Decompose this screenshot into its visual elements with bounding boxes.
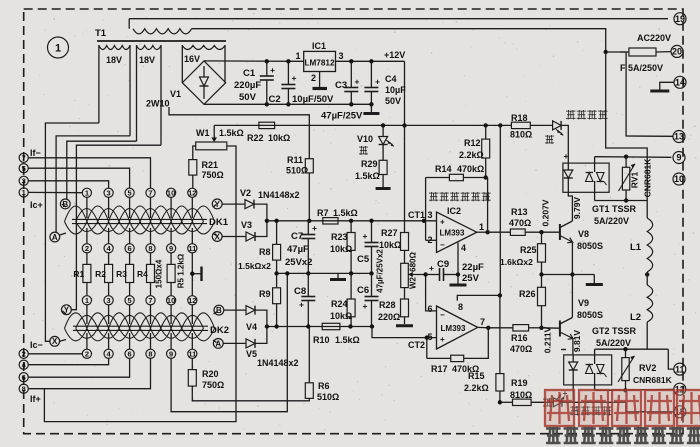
resistor R23 10k bbox=[350, 221, 352, 233]
pin1 output to R13 bbox=[477, 231, 488, 233]
svg-text:510Ω: 510Ω bbox=[286, 166, 308, 176]
svg-text:5: 5 bbox=[128, 296, 132, 305]
svg-text:LM393: LM393 bbox=[441, 324, 466, 333]
svg-text:1.5kΩ: 1.5kΩ bbox=[335, 335, 360, 345]
terminal 9 bbox=[673, 152, 685, 164]
wire triac bottom / RV1 bottom to L1 feed bbox=[594, 192, 596, 200]
svg-text:2.2kΩ: 2.2kΩ bbox=[464, 383, 489, 393]
svg-text:AC220V: AC220V bbox=[637, 33, 671, 43]
svg-text:750Ω: 750Ω bbox=[202, 380, 224, 390]
bridge rectifier V1 2W10 bbox=[182, 61, 225, 104]
svg-text:If−: If− bbox=[30, 148, 41, 158]
LED V10 red with R29 bbox=[381, 123, 385, 127]
svg-text:3: 3 bbox=[428, 210, 433, 220]
T1 secondary 16V winding bbox=[181, 45, 183, 83]
svg-text:Ic−: Ic− bbox=[30, 340, 43, 350]
wire terminal 8 to tap bbox=[28, 358, 150, 388]
svg-text:18V: 18V bbox=[139, 55, 155, 65]
svg-text:510Ω: 510Ω bbox=[317, 392, 339, 402]
svg-text:If+: If+ bbox=[30, 394, 41, 404]
svg-text:R25: R25 bbox=[520, 245, 537, 255]
label lv (green) bbox=[545, 135, 554, 144]
svg-text:7: 7 bbox=[480, 317, 485, 327]
resistor R20 750ohm bbox=[191, 358, 193, 369]
svg-text:470Ω: 470Ω bbox=[510, 344, 532, 354]
svg-text:IC1: IC1 bbox=[312, 41, 326, 51]
svg-text:R1: R1 bbox=[73, 269, 84, 279]
wire triac top to terminal 9 bbox=[594, 157, 596, 163]
label fancheng zhishi bbox=[566, 110, 576, 120]
svg-text:R29: R29 bbox=[361, 159, 378, 169]
feedback R17 470k bbox=[426, 338, 428, 359]
svg-text:10kΩ: 10kΩ bbox=[379, 240, 401, 250]
svg-text:A: A bbox=[215, 339, 221, 348]
resistor R18 810ohm bbox=[511, 122, 530, 128]
wire GT2 triac bottom to terminal 12 bbox=[594, 385, 596, 390]
svg-text:1: 1 bbox=[479, 222, 484, 232]
wire terminal 5 to tap bbox=[28, 168, 129, 188]
svg-text:1.5kΩ: 1.5kΩ bbox=[333, 208, 358, 218]
svg-text:+: + bbox=[440, 218, 445, 227]
svg-text:+: + bbox=[292, 73, 297, 83]
svg-text:C9: C9 bbox=[437, 259, 449, 270]
output row R10 bbox=[267, 326, 372, 328]
terminal 10 bbox=[673, 173, 685, 185]
svg-text:6: 6 bbox=[128, 350, 132, 359]
svg-text:47µF: 47µF bbox=[287, 244, 309, 255]
capacitor C7 47uF/25Vx2 bbox=[307, 221, 309, 234]
svg-text:1.5kΩ: 1.5kΩ bbox=[355, 171, 380, 181]
wire AC line top to terminal 19 bbox=[129, 18, 668, 20]
svg-text:9: 9 bbox=[169, 244, 173, 253]
svg-text:CT1: CT1 bbox=[408, 210, 425, 220]
svg-text:1N4148x2: 1N4148x2 bbox=[258, 190, 300, 200]
opto triac GT1 TSSR box bbox=[563, 163, 609, 192]
IC1 pin2 ground bar bbox=[319, 72, 321, 88]
terminal 20 bbox=[671, 45, 683, 57]
DK2 winding band bbox=[73, 325, 208, 327]
svg-text:1: 1 bbox=[296, 51, 301, 61]
tap 11-12 vertical with stub bbox=[191, 253, 193, 296]
wire AC line 2 to fuse bbox=[192, 29, 606, 52]
stair wire 18Vb left to B bbox=[67, 141, 137, 199]
svg-text:+: + bbox=[375, 77, 380, 87]
svg-text:8: 8 bbox=[22, 384, 26, 393]
svg-text:2: 2 bbox=[85, 350, 89, 359]
T1 secondary 18V winding a bbox=[98, 45, 100, 123]
svg-text:8: 8 bbox=[148, 244, 152, 253]
svg-text:6: 6 bbox=[428, 304, 433, 314]
svg-text:Ic+: Ic+ bbox=[30, 200, 43, 210]
svg-text:V9: V9 bbox=[578, 298, 589, 308]
wire tap9 down to comparator column bbox=[171, 273, 287, 411]
svg-text:8050S: 8050S bbox=[577, 310, 603, 320]
R26 bbox=[541, 275, 543, 288]
svg-text:R5 1.2kΩ: R5 1.2kΩ bbox=[177, 253, 186, 288]
svg-text:R19: R19 bbox=[511, 378, 528, 388]
svg-text:+12V: +12V bbox=[384, 50, 405, 60]
svg-text:+: + bbox=[363, 301, 368, 311]
svg-text:R15: R15 bbox=[468, 371, 485, 381]
svg-text:R10: R10 bbox=[313, 335, 330, 345]
svg-text:LM393: LM393 bbox=[440, 229, 465, 238]
svg-text:2: 2 bbox=[22, 350, 26, 359]
W2 wiper bbox=[408, 274, 425, 276]
svg-text:10µF: 10µF bbox=[385, 85, 406, 95]
svg-text:1N4148x2: 1N4148x2 bbox=[257, 358, 299, 368]
R15 2.2k bbox=[496, 374, 504, 391]
svg-text:11: 11 bbox=[188, 350, 196, 359]
R19 810ohm row bbox=[500, 401, 513, 403]
svg-text:9.81V: 9.81V bbox=[572, 330, 582, 353]
svg-text:+: + bbox=[355, 77, 360, 87]
CT1 signal row with R7 1.5k bbox=[267, 220, 437, 222]
svg-text:10kΩ: 10kΩ bbox=[330, 311, 352, 321]
transistor V9 8050S bbox=[559, 321, 561, 337]
DK1 node X right bbox=[212, 232, 222, 242]
svg-text:V3: V3 bbox=[241, 220, 252, 230]
pin6 wire from reference bbox=[426, 275, 437, 311]
LED green forward indicator bbox=[553, 398, 562, 407]
capacitor C3 47uF/25V bbox=[349, 59, 353, 63]
svg-text:9.79V: 9.79V bbox=[572, 197, 582, 220]
svg-text:1.5kΩx2: 1.5kΩx2 bbox=[238, 261, 271, 271]
svg-text:14: 14 bbox=[675, 78, 685, 88]
svg-text:R13: R13 bbox=[511, 207, 528, 217]
svg-text:C2: C2 bbox=[269, 94, 281, 105]
wire terminal 3 to tap bbox=[28, 181, 108, 189]
svg-text:1.5kΩ: 1.5kΩ bbox=[219, 128, 244, 138]
resistors R1-R5 1500x4 and R5 1.2k bbox=[86, 253, 88, 265]
resistor R24 10k bbox=[350, 273, 352, 299]
svg-text:6: 6 bbox=[22, 373, 26, 382]
capacitor C8 bbox=[307, 273, 309, 296]
svg-text:20: 20 bbox=[672, 47, 682, 57]
svg-text:R24: R24 bbox=[331, 299, 348, 309]
T1 core bar bbox=[97, 40, 226, 42]
DK1 node A bbox=[50, 232, 60, 242]
capacitor C4 10uF/50V with ground bbox=[369, 59, 373, 63]
svg-text:8: 8 bbox=[458, 302, 463, 312]
emitter node row to ground bbox=[542, 274, 595, 276]
watermark gray text bbox=[546, 427, 700, 444]
svg-text:C3: C3 bbox=[335, 80, 347, 91]
wire LED to opto GT1 bbox=[561, 125, 568, 163]
svg-text:R20: R20 bbox=[202, 369, 219, 379]
svg-text:750Ω: 750Ω bbox=[202, 170, 224, 180]
svg-text:5A/220V: 5A/220V bbox=[594, 216, 629, 226]
DK2 node X bbox=[50, 336, 60, 346]
GT1 input LED bbox=[567, 163, 569, 170]
svg-text:V2: V2 bbox=[240, 188, 251, 198]
svg-text:V1: V1 bbox=[170, 89, 181, 99]
svg-text:10: 10 bbox=[674, 174, 684, 184]
svg-text:4: 4 bbox=[461, 243, 466, 253]
svg-text:−: − bbox=[440, 311, 445, 320]
svg-text:R11: R11 bbox=[287, 155, 303, 165]
svg-text:R28: R28 bbox=[379, 300, 396, 310]
svg-text:RV2: RV2 bbox=[639, 363, 656, 373]
svg-text:2: 2 bbox=[311, 73, 316, 83]
resistor R29 1.5k bbox=[379, 160, 387, 174]
svg-text:C8: C8 bbox=[294, 286, 306, 297]
watermark red large bbox=[545, 390, 700, 426]
svg-text:R23: R23 bbox=[331, 232, 348, 242]
stair wire 18Va right to A bbox=[56, 136, 130, 232]
svg-text:R21: R21 bbox=[202, 160, 219, 170]
svg-text:+: + bbox=[270, 65, 275, 75]
svg-text:50V: 50V bbox=[385, 96, 401, 106]
DK2 band end connectors bbox=[63, 311, 67, 314]
svg-text:680Ω: 680Ω bbox=[409, 252, 418, 272]
svg-text:2: 2 bbox=[85, 244, 89, 253]
supply vertical from +12V bbox=[498, 123, 502, 127]
svg-text:R2: R2 bbox=[95, 269, 106, 279]
svg-text:220Ω: 220Ω bbox=[378, 312, 400, 322]
inductor L2 bbox=[647, 285, 653, 322]
svg-text:LM7812: LM7812 bbox=[304, 59, 334, 68]
fuse F 5A/250V bbox=[604, 50, 608, 54]
CT2 row to pin5 bbox=[372, 327, 437, 338]
svg-text:X: X bbox=[52, 337, 58, 346]
svg-text:B: B bbox=[216, 306, 222, 315]
resistor R22 10k bbox=[259, 122, 275, 128]
svg-text:150Ωx4: 150Ωx4 bbox=[155, 259, 164, 288]
mid reference row with ground bbox=[277, 272, 372, 274]
svg-text:1: 1 bbox=[85, 189, 89, 198]
wire terminal 4 to tap bbox=[28, 358, 108, 364]
svg-text:L2: L2 bbox=[630, 312, 641, 323]
pin4 ground bbox=[457, 243, 459, 275]
terminal 13 wire from fuse node bbox=[620, 51, 626, 53]
svg-text:R7: R7 bbox=[317, 208, 329, 218]
svg-text:25Vx2: 25Vx2 bbox=[285, 257, 312, 268]
svg-text:+: + bbox=[564, 151, 569, 161]
svg-text:2W10: 2W10 bbox=[146, 99, 170, 109]
svg-text:C6: C6 bbox=[357, 285, 369, 296]
svg-text:1: 1 bbox=[85, 296, 89, 305]
op-amp IC2 lower LM393 bbox=[437, 306, 478, 349]
svg-text:X: X bbox=[215, 232, 221, 241]
resistor R11 510ohm bbox=[305, 159, 313, 173]
svg-text:V10: V10 bbox=[357, 134, 373, 144]
resistor R12 2.2k bbox=[484, 123, 488, 127]
svg-text:12: 12 bbox=[188, 189, 196, 198]
svg-text:R9: R9 bbox=[259, 289, 271, 299]
terminal 14 with ground bbox=[674, 76, 686, 88]
svg-text:5: 5 bbox=[128, 189, 132, 198]
DK2 node Y left bbox=[62, 305, 72, 315]
capacitor C2 10uF/50V bbox=[286, 59, 290, 63]
mains feed wire to L1 bbox=[606, 52, 648, 218]
svg-text:810Ω: 810Ω bbox=[510, 130, 532, 140]
0V rail from bridge bottom bbox=[204, 103, 371, 105]
V8 emitter down to node bbox=[571, 242, 573, 275]
svg-text:1.6kΩx2: 1.6kΩx2 bbox=[500, 257, 533, 267]
DK1 node Y bbox=[212, 199, 222, 209]
R25 1.6kx2 bbox=[541, 232, 543, 244]
wire GT1 LED to V8 collector bbox=[568, 192, 572, 221]
svg-text:6: 6 bbox=[128, 244, 132, 253]
svg-text:GT2 TSSR: GT2 TSSR bbox=[592, 326, 637, 336]
svg-text:50V: 50V bbox=[239, 92, 257, 103]
DK2 top taps bbox=[82, 296, 91, 305]
wire terminal 1 to tap bbox=[28, 191, 82, 193]
svg-text:CNR681K: CNR681K bbox=[633, 375, 673, 385]
svg-text:R3: R3 bbox=[116, 269, 127, 279]
DK1 band end connectors bbox=[62, 204, 66, 207]
svg-text:3: 3 bbox=[339, 51, 344, 61]
svg-text:R26: R26 bbox=[519, 289, 536, 299]
svg-text:0.211V: 0.211V bbox=[543, 326, 553, 353]
svg-text:CT2: CT2 bbox=[408, 340, 425, 350]
svg-text:470Ω: 470Ω bbox=[509, 218, 531, 228]
wire W1 right down-left loop to If+ terminal bbox=[44, 146, 236, 422]
svg-text:2.2kΩ: 2.2kΩ bbox=[459, 150, 484, 160]
T1 secondary 18V winding b bbox=[136, 45, 138, 141]
GT2 input LED bbox=[572, 355, 574, 362]
capacitor C6 bbox=[371, 273, 373, 296]
svg-text:C5: C5 bbox=[357, 254, 370, 265]
svg-text:L1: L1 bbox=[630, 242, 642, 253]
resistor R21 750ohm bbox=[189, 160, 197, 176]
svg-text:470kΩ: 470kΩ bbox=[457, 164, 484, 174]
svg-text:R27: R27 bbox=[381, 228, 398, 238]
svg-text:5A/220V: 5A/220V bbox=[596, 338, 631, 348]
wire terminal 2 to tap bbox=[28, 353, 82, 355]
svg-text:11: 11 bbox=[675, 364, 685, 374]
svg-text:3: 3 bbox=[107, 189, 111, 198]
svg-text:25V: 25V bbox=[462, 273, 480, 284]
GT2 LED anode wire with plus bbox=[572, 385, 574, 402]
svg-text:CNR681K: CNR681K bbox=[643, 158, 653, 198]
svg-text:8: 8 bbox=[148, 350, 152, 359]
wire bridge + output to IC1 bbox=[204, 60, 304, 62]
svg-text:V8: V8 bbox=[578, 229, 589, 239]
svg-text:22µF: 22µF bbox=[462, 262, 484, 273]
svg-text:220µF: 220µF bbox=[234, 80, 261, 91]
T1 primary winding bbox=[128, 19, 130, 29]
label zhengcheng zhishi bbox=[570, 406, 580, 416]
svg-text:0.207V: 0.207V bbox=[541, 199, 551, 226]
resistor R9 bbox=[276, 273, 278, 287]
V9 emitter to GT2 bbox=[572, 339, 574, 355]
svg-text:19: 19 bbox=[675, 14, 685, 24]
svg-text:V4: V4 bbox=[246, 322, 257, 332]
capacitor C9 22uF/25V bbox=[426, 274, 440, 276]
stair wire 18Va left to X bbox=[45, 123, 99, 341]
inductor L1 bbox=[647, 218, 653, 272]
svg-text:1: 1 bbox=[22, 188, 26, 197]
svg-text:A: A bbox=[52, 233, 58, 242]
svg-text:+: + bbox=[440, 335, 445, 344]
wire terminal 6 to tap bbox=[28, 358, 129, 377]
svg-text:+: + bbox=[363, 231, 368, 241]
V9 collector up to node bbox=[571, 275, 573, 318]
svg-text:+: + bbox=[429, 263, 434, 273]
resistor R6 510ohm bbox=[308, 327, 310, 383]
svg-text:12: 12 bbox=[188, 296, 196, 305]
svg-text:R4: R4 bbox=[137, 269, 148, 279]
svg-text:DK2: DK2 bbox=[210, 325, 229, 336]
svg-text:W1: W1 bbox=[196, 128, 210, 138]
svg-text:+: + bbox=[312, 223, 317, 233]
GT2 output triac bbox=[594, 355, 596, 364]
capacitor C5 bbox=[371, 221, 373, 242]
varistor RV2 CNR681K bbox=[625, 349, 627, 357]
DK1 top taps 1 3 5 7 10 12 bbox=[82, 188, 91, 197]
svg-text:R8: R8 bbox=[259, 247, 271, 257]
svg-text:8050S: 8050S bbox=[577, 241, 603, 251]
pin8 supply wire bbox=[457, 295, 500, 300]
terminal 11 wire bbox=[668, 349, 674, 369]
svg-text:GT1 TSSR: GT1 TSSR bbox=[592, 204, 637, 214]
svg-text:T1: T1 bbox=[95, 28, 107, 39]
svg-text:10: 10 bbox=[167, 296, 175, 305]
DK2 node A bbox=[213, 339, 223, 349]
svg-text:7: 7 bbox=[148, 189, 152, 198]
svg-text:11: 11 bbox=[188, 244, 196, 253]
schematic number circle 1 bbox=[48, 37, 69, 58]
svg-text:10: 10 bbox=[167, 189, 175, 198]
wire LED to terminal 15 bbox=[562, 401, 626, 403]
pin7 output row R16 bbox=[478, 326, 489, 328]
svg-text:10kΩ: 10kΩ bbox=[330, 244, 352, 254]
wire W1 left to R21 bbox=[193, 146, 196, 160]
feedback R14 470k bbox=[425, 178, 427, 241]
svg-text:3: 3 bbox=[107, 296, 111, 305]
svg-text:R6: R6 bbox=[318, 381, 330, 391]
svg-text:R22: R22 bbox=[247, 133, 264, 143]
svg-text:R17: R17 bbox=[431, 364, 448, 374]
svg-text:1: 1 bbox=[55, 43, 61, 55]
IC1 LM7812 regulator bbox=[304, 51, 336, 71]
pin2 wire bbox=[426, 239, 437, 241]
+12V rail down and right bbox=[404, 61, 406, 125]
svg-text:18V: 18V bbox=[106, 55, 122, 65]
transistor V8 8050S bbox=[559, 224, 561, 240]
svg-text:5: 5 bbox=[22, 164, 26, 173]
comparator label shuangdianya bijiaoqi bbox=[429, 192, 438, 201]
svg-text:16V: 16V bbox=[184, 54, 200, 64]
svg-text:−: − bbox=[440, 241, 445, 250]
varistor RV1 CNR681K bbox=[625, 157, 627, 168]
svg-text:R18: R18 bbox=[511, 113, 528, 123]
svg-text:10kΩ: 10kΩ bbox=[268, 133, 290, 143]
reference divider R27 W2 R28 bbox=[404, 125, 406, 232]
DK1 bottom taps 2 4 6 8 9 11 bbox=[82, 244, 91, 253]
opto triac GT2 TSSR box bbox=[564, 355, 612, 385]
svg-text:10µF/50V: 10µF/50V bbox=[292, 94, 334, 105]
DK1 node B bbox=[60, 199, 70, 209]
svg-text:C7: C7 bbox=[291, 231, 303, 242]
svg-text:9: 9 bbox=[169, 350, 173, 359]
svg-text:RV1: RV1 bbox=[630, 172, 640, 189]
label hong (red) bbox=[359, 146, 368, 155]
svg-text:7: 7 bbox=[22, 154, 26, 163]
stair wire 18Vb right to Y bbox=[71, 145, 161, 310]
DK2 node B right bbox=[214, 305, 224, 315]
DK2 bottom taps bbox=[82, 349, 91, 358]
svg-text:V5: V5 bbox=[246, 349, 257, 359]
wire IC1 out +12V bbox=[336, 60, 405, 62]
svg-text:47µF/25Vx2: 47µF/25Vx2 bbox=[376, 249, 385, 293]
resistor R8 1.5kx2 bbox=[276, 221, 278, 245]
svg-text:W2: W2 bbox=[409, 276, 418, 289]
wire R20 to R6 bottom bbox=[192, 386, 309, 401]
GT1 output triac bbox=[594, 163, 596, 172]
DK1 winding band bbox=[72, 218, 207, 220]
